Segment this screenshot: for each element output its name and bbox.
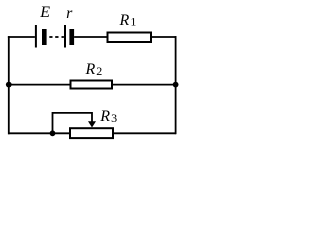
wire R1 to top-right corner	[152, 37, 176, 38]
battery cell 1 long plate	[35, 25, 37, 48]
svg-text:r: r	[66, 5, 73, 22]
svg-text:E: E	[39, 4, 50, 21]
wire middle-left (to R2)	[8, 84, 70, 86]
resistor R2	[71, 81, 113, 89]
svg-text:1: 1	[130, 15, 136, 29]
battery cell 1 short thick plate	[42, 29, 47, 45]
wire bottom-right (R3 to right side)	[114, 132, 176, 134]
node left junction dot	[6, 82, 12, 88]
node tap junction dot	[50, 130, 56, 136]
svg-text:R: R	[99, 108, 110, 125]
wire right vertical	[175, 36, 177, 134]
svg-text:3: 3	[111, 111, 117, 125]
svg-text:2: 2	[96, 64, 102, 78]
wire bottom-left (to R3)	[8, 132, 70, 134]
battery cell 2 short thick plate	[69, 29, 74, 45]
rheostat R3 body	[70, 128, 113, 138]
wire middle-right (R2 to right side)	[113, 84, 177, 86]
battery cell 2 long plate	[64, 25, 66, 48]
resistor R1	[108, 33, 152, 43]
wire wiper tap (junction to arrow)	[53, 113, 93, 133]
node right junction dot	[173, 82, 179, 88]
wire top-left (node A to battery)	[9, 37, 35, 38]
rheostat wiper arrowhead	[88, 121, 96, 127]
svg-text:R: R	[85, 61, 96, 78]
wire left vertical	[8, 36, 10, 134]
dashed link (omitted cells)	[49, 36, 52, 38]
wire battery to R1	[74, 36, 107, 38]
svg-text:R: R	[119, 12, 130, 29]
